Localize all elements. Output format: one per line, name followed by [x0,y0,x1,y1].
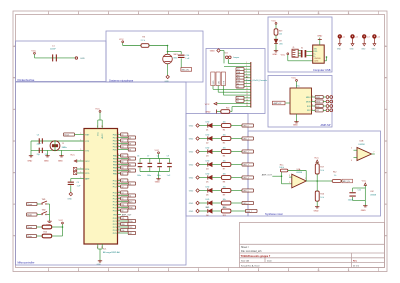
svg-text:Y1: Y1 [62,143,64,145]
svg-text:R7: R7 [223,169,225,171]
svg-text:R19: R19 [279,30,282,32]
svg-text:GND: GND [165,81,170,83]
svg-text:100nF: 100nF [50,49,56,51]
svg-text:GND: GND [97,264,102,266]
svg-text:LED_0: LED_0 [243,125,249,127]
svg-text:D4: D4 [206,168,208,170]
svg-text:GND: GND [337,49,342,51]
svg-text:10k: 10k [223,135,226,137]
svg-text:10 k: 10 k [320,197,324,199]
svg-text:LED: LED [206,135,210,137]
svg-text:GND: GND [189,191,194,193]
svg-text:GND: GND [350,49,355,51]
svg-text:GND: GND [189,152,194,154]
svg-text:MIC: MIC [174,57,178,59]
svg-text:GND: GND [293,125,298,127]
svg-text:LED_1: LED_1 [243,138,249,140]
svg-text:R4: R4 [223,130,225,132]
svg-text:10k: 10k [223,174,226,176]
svg-text:VCC: VCC [205,104,210,106]
svg-text:U1B: U1B [360,141,365,143]
svg-text:1k5: 1k5 [279,34,282,36]
svg-text:PB7: PB7 [113,214,117,216]
svg-text:GND: GND [272,54,277,56]
svg-text:22p: 22p [37,154,40,156]
svg-text:VCC: VCC [119,39,124,41]
svg-text:100n: 100n [137,175,141,177]
svg-text:R16: R16 [320,194,323,196]
svg-text:LED: LED [206,148,210,150]
svg-text:10k: 10k [223,148,226,150]
svg-text:VCC: VCC [85,161,90,163]
svg-text:10k: 10k [223,161,226,163]
svg-text:10k: 10k [223,187,226,189]
svg-text:R6: R6 [223,156,225,158]
svg-text:C6: C6 [137,156,139,158]
svg-text:D9: D9 [279,41,281,43]
svg-text:Mode: Mode [27,236,32,238]
svg-text:VCC: VCC [362,180,367,182]
svg-text:LED: LED [206,199,210,201]
svg-text:VCC: VCC [291,78,296,80]
svg-text:GND: GND [27,161,32,163]
svg-text:LED_7: LED_7 [246,211,252,213]
svg-text:C9: C9 [167,156,169,158]
svg-text:D3: D3 [206,155,208,157]
svg-text:Conn_01x16_Female: Conn_01x16_Female [246,80,268,82]
svg-text:LED_3: LED_3 [243,164,249,166]
svg-text:GND: GND [317,36,322,38]
svg-text:GND: GND [189,126,194,128]
svg-text:MISO: MISO [306,97,311,99]
svg-text:VCC: VCC [281,54,286,56]
svg-text:LED: LED [206,187,210,189]
svg-text:LM358: LM358 [296,172,302,174]
svg-text:LM358: LM358 [359,144,366,146]
svg-text:2.2 k: 2.2 k [141,40,145,42]
svg-text:GND: GND [210,51,215,53]
svg-text:GND: GND [206,112,211,114]
svg-text:J5: J5 [292,47,294,49]
svg-text:Id: 1/1: Id: 1/1 [353,265,360,267]
svg-text:GND: GND [80,58,85,60]
svg-text:D1: D1 [206,129,208,131]
svg-text:D2: D2 [206,142,208,144]
svg-text:bassotto gruppe 7: bassotto gruppe 7 [250,255,271,258]
svg-text:VCC: VCC [70,154,75,156]
svg-text:LED_5: LED_5 [243,190,249,192]
svg-text:GND: GND [58,161,63,163]
svg-text:U1C: U1C [370,191,374,193]
svg-text:LED_2: LED_2 [243,151,249,153]
svg-text:R5: R5 [223,143,225,145]
svg-text:LED_6: LED_6 [243,203,249,205]
svg-text:LED: LED [206,161,210,163]
svg-text:GND: GND [155,182,160,184]
svg-text:SJ1: SJ1 [225,52,228,54]
svg-text:VCC: VCC [98,131,100,136]
svg-text:D+: D+ [314,53,316,55]
svg-text:D8: D8 [206,215,208,217]
svg-text:R12: R12 [333,172,336,174]
svg-text:8MHz: 8MHz [62,147,67,149]
svg-text:C3: C3 [37,135,39,137]
svg-text:D6: D6 [206,194,208,196]
svg-text:GND: GND [314,211,319,213]
svg-text:C8: C8 [157,156,159,158]
svg-text:10 k: 10 k [320,170,324,172]
svg-text:LED: LED [206,174,210,176]
svg-text:C5: C5 [77,182,79,184]
svg-text:D5: D5 [206,181,208,183]
svg-text:LED_4: LED_4 [243,177,249,179]
svg-text:MIC_IN: MIC_IN [343,181,350,183]
svg-text:100 k: 100 k [279,167,284,169]
svg-text:VCC: VCC [314,158,319,160]
svg-text:VCC: VCC [59,220,64,222]
svg-text:GND: GND [361,210,366,212]
svg-text:C7: C7 [147,156,149,158]
svg-text:GND: GND [372,49,377,51]
svg-text:GND: GND [361,49,366,51]
svg-text:R8: R8 [223,182,225,184]
svg-text:10k: 10k [223,199,226,201]
svg-text:10k: 10k [223,207,226,209]
svg-text:GND: GND [189,139,194,141]
svg-text:R20: R20 [226,108,229,110]
svg-text:10k: 10k [223,122,226,124]
svg-text:R15: R15 [44,231,47,233]
svg-text:LED: LED [206,122,210,124]
svg-text:LED: LED [206,207,210,209]
svg-text:U2G: U2G [314,61,319,63]
svg-text:GND: GND [189,211,194,213]
svg-text:X2: X2 [301,48,303,50]
svg-text:R9: R9 [223,195,225,197]
svg-text:File: xxxx.kicad_sch: File: xxxx.kicad_sch [241,251,262,253]
svg-text:LM358: LM358 [370,195,376,197]
svg-text:MIC_IN: MIC_IN [182,69,189,71]
svg-text:100nF: 100nF [348,199,354,201]
svg-text:1 k: 1 k [334,175,337,177]
svg-text:GND: GND [189,203,194,205]
svg-text:MOSI: MOSI [306,101,311,103]
svg-text:GND: GND [189,165,194,167]
svg-text:R17: R17 [320,166,323,168]
svg-text:100n: 100n [147,175,151,177]
svg-text:GND: GND [189,178,194,180]
svg-text:RST: RST [85,134,90,136]
svg-text:Mode: Mode [27,214,32,216]
svg-text:C11: C11 [358,190,361,192]
svg-text:GND: GND [67,198,72,200]
svg-text:R11: R11 [223,215,226,217]
svg-text:CH340: CH340 [314,58,321,60]
svg-text:GND: GND [44,161,49,163]
